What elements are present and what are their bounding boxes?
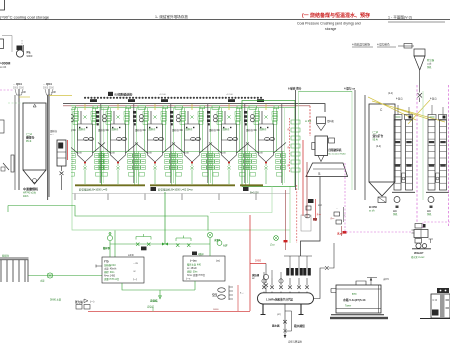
four-roll crusher (315, 136, 328, 156)
svg-text:减压阀: 减压阀 (252, 273, 260, 277)
stem gauge circle (279, 279, 283, 283)
unit 6 red service line (289, 118, 291, 172)
svg-text:DN50: DN50 (255, 260, 262, 263)
svg-text:(2-2): (2-2) (388, 93, 393, 95)
pump 1 (416, 243, 421, 248)
coal bunker unit 1 (63, 104, 105, 200)
screen discharge pipe (301, 177, 321, 257)
silo A body (23, 103, 46, 170)
svg-text:(一 烧结备煤与恒温混水、预存: (一 烧结备煤与恒温混水、预存 (302, 12, 370, 19)
tripper trolley (257, 99, 264, 102)
cyclone feed box (404, 44, 412, 49)
pump casing (414, 230, 428, 238)
belt conveyor 2 (150, 184, 235, 186)
cyclone drop pipe (418, 70, 423, 102)
coal bunker unit 6 (244, 104, 286, 200)
svg-text:95.4t: 95.4t (373, 138, 379, 141)
yellow transfer line 1 (368, 97, 416, 120)
junction arrows (162, 243, 168, 246)
to sinter tick (152, 308, 154, 311)
svg-text:←Q04: ←Q04 (43, 82, 52, 86)
valve bracket B (136, 234, 151, 240)
steam trap (283, 320, 287, 324)
svg-text:(FT): (FT) (277, 314, 281, 316)
svg-text:循环泵: 循环泵 (102, 246, 111, 250)
feed chute 1 (18, 89, 20, 190)
trench pump (47, 273, 52, 278)
drum valve stem 3 (279, 278, 283, 293)
svg-text:(—): (—) (133, 278, 137, 281)
tag list left (291, 120, 300, 124)
feeder hot line (67, 140, 69, 160)
svg-text:Coal Pressure Crushing (and dr: Coal Pressure Crushing (and drying) and (297, 22, 361, 26)
svg-text:B=650: B=650 (369, 205, 377, 209)
blowdown line (brown) (285, 190, 287, 250)
manifold bracket (229, 286, 233, 301)
coal bunker unit 3 (133, 104, 175, 200)
svg-text:BTX: BTX (352, 293, 357, 296)
tripper trolley (228, 99, 235, 102)
tank riser box (356, 281, 366, 285)
bunker bay top rail (72, 107, 295, 109)
svg-text:A1F: A1F (223, 245, 228, 248)
tag BQ (17, 46, 23, 51)
coal bunker unit 2 (96, 104, 138, 200)
svg-text:storage: storage (325, 27, 336, 31)
bunker bay enclosure (72, 108, 290, 231)
svg-text:(—): (—) (90, 300, 94, 304)
wire to pressure gauge (2, 36, 12, 53)
circulating pump A (107, 235, 112, 240)
silo C wall line (364, 95, 366, 200)
valve E green (217, 241, 222, 246)
heater box 1 (102, 257, 144, 283)
pump top box (415, 224, 422, 229)
silo A vent marker (33, 104, 36, 107)
svg-text:xxFD: xxFD (128, 254, 134, 257)
silo C body (369, 104, 395, 182)
svg-text:B=1000: B=1000 (250, 192, 259, 195)
svg-text:N=xx 1450: N=xx 1450 (104, 276, 116, 278)
drain arrow (284, 335, 287, 338)
svg-text:4-混匀 xx: 4-混匀 xx (344, 87, 356, 91)
svg-text:去烧结: 去烧结 (150, 299, 158, 303)
svg-text:混匀矿仓: 混匀矿仓 (373, 134, 384, 138)
steam line to sinter (red) (88, 310, 250, 312)
bay wall red dashed (296, 185, 298, 243)
svg-text:煤粉仓: 煤粉仓 (50, 129, 58, 133)
heater box 1 stub (96, 265, 102, 268)
stem header line (284, 255, 312, 257)
pump sub box (415, 239, 422, 244)
battery limit (magenta dashed) 2 (448, 85, 450, 226)
circulating pump D (207, 232, 212, 237)
drum valve stem 2 (270, 278, 274, 293)
svg-text:水8.5: 水8.5 (383, 277, 389, 281)
distribution header (110, 243, 210, 245)
upper-left partial box (0, 39, 4, 49)
svg-text:xx t/h: xx t/h (369, 210, 375, 213)
stem isolation valve pair (286, 268, 289, 276)
tripper trolley (161, 99, 168, 102)
pump 2 (422, 244, 426, 248)
silo C discharge feeder (378, 197, 386, 203)
svg-text:4-混匀料仓: 4-混匀料仓 (377, 43, 390, 47)
trap bypass (283, 311, 291, 333)
coal feeder box (57, 140, 66, 166)
riser from bay (164, 192, 166, 244)
yellow transfer line 4 (408, 100, 430, 124)
tripper trolley (90, 99, 97, 102)
valve cluster below crusher (308, 199, 314, 203)
feeder discharge (60, 166, 64, 190)
svg-text:4-烧结混匀料场: 4-烧结混匀料场 (352, 43, 370, 47)
svg-text:←xx: ←xx (133, 262, 139, 265)
svg-text:疏水器: 疏水器 (271, 324, 280, 328)
svg-text:磨煤仓: 磨煤仓 (25, 136, 35, 140)
magenta jumper top (423, 222, 450, 228)
left chute symbols (11, 155, 14, 172)
svg-text:≈900M: ≈900M (0, 62, 11, 66)
equipment tag box (301, 215, 311, 231)
drum valve stem 5 (297, 278, 301, 293)
mill motor M (33, 179, 37, 183)
svg-text:9000: 9000 (27, 54, 33, 58)
coal bunker unit 4 (170, 104, 212, 200)
svg-text:+-08: +-08 (21, 92, 26, 94)
crusher water lines (302, 140, 304, 216)
cyclone body (414, 49, 425, 56)
air compressor symbols (218, 288, 226, 292)
belt conveyor 3 (240, 184, 263, 186)
svg-text:No Crusher Roller: No Crusher Roller (329, 153, 347, 156)
incoming line (magenta dashed) (0, 89, 13, 91)
svg-text:Pa: Pa (27, 51, 31, 55)
svg-text:胶带输送机 B=1000 L=45: 胶带输送机 B=1000 L=45 (79, 188, 108, 192)
control cabinet (431, 294, 450, 318)
drum legs (261, 304, 266, 315)
steam distribution drum (258, 293, 314, 304)
pressure gauge circle (16, 50, 23, 57)
unit 6 enclosure (242, 101, 295, 187)
svg-text:胶带输送机 B=1000 L=62 Q=xx: 胶带输送机 B=1000 L=62 Q=xx (158, 188, 194, 192)
mixing tower pair 1 (392, 105, 415, 216)
crusher discharge funnel (318, 156, 324, 162)
gallery floor line (63, 104, 325, 112)
svg-text:6-破碎 筛分: 6-破碎 筛分 (288, 87, 302, 91)
svg-text:WGAP: WGAP (414, 251, 423, 255)
title block corner box (0, 0, 5, 10)
tower green line (422, 91, 424, 200)
drum valve stem 6 (305, 278, 309, 293)
cabinet base (420, 318, 450, 320)
steam supply riser (red) (249, 215, 251, 311)
yellow transfer line 3 (395, 108, 428, 119)
svg-text:FTD: FTD (104, 261, 109, 264)
silo C hopper (369, 182, 395, 196)
belt conveyor 1 (75, 184, 145, 186)
svg-text:x→: x→ (240, 292, 244, 295)
stem isolation valve pair (303, 268, 306, 276)
svg-text:1 - 平面图(V-3): 1 - 平面图(V-3) (388, 15, 412, 20)
crusher feeder box (317, 117, 326, 124)
svg-text:(—)xx: (—)xx (190, 260, 197, 263)
crusher to pump line (magenta dashed) (345, 163, 413, 232)
battery limit (magenta dashed) 1 (416, 85, 418, 222)
svg-text:95.4t: 95.4t (26, 140, 32, 143)
heater box 2 (183, 256, 225, 281)
tank base (331, 314, 384, 316)
svg-text:四辊破碎机: 四辊破碎机 (329, 148, 342, 152)
svg-text:+12.00: +12.00 (226, 94, 234, 96)
compressor air line (red) (237, 285, 239, 311)
tripper rail (loop chain) (85, 97, 262, 99)
svg-text:C O: C O (433, 298, 438, 302)
svg-text:+12.00: +12.00 (159, 94, 167, 96)
left wall line (14, 95, 16, 190)
pump base (412, 248, 431, 250)
svg-text:+-08: +-08 (51, 92, 56, 94)
crusher feed line (red dashed) (309, 106, 311, 136)
tank dimension arrow (367, 278, 377, 286)
svg-text:xx 60t: xx 60t (305, 120, 311, 123)
svg-text:Tower: Tower (345, 305, 351, 308)
left wall box (0, 120, 4, 133)
elevator column (47, 95, 49, 200)
trench outlet pipe (29, 275, 103, 277)
vibrating screen (306, 163, 348, 177)
drum valve stem 4 (288, 278, 292, 293)
drum outlet right (314, 268, 326, 299)
bay enclosure inner step (210, 186, 272, 213)
gallery floor thin line (72, 193, 290, 195)
svg-text:1- 烧结室外堆场存放: 1- 烧结室外堆场存放 (155, 14, 188, 19)
svg-text:疏水阀组: 疏水阀组 (293, 324, 305, 328)
svg-text:原煤仓: 原煤仓 (2, 254, 10, 258)
svg-text:中速磨煤机: 中速磨煤机 (23, 186, 38, 191)
rail tag (108, 92, 113, 96)
water tank (336, 285, 381, 313)
outlet to sinter (122, 281, 195, 299)
valve F green (274, 236, 279, 241)
svg-text:←Q04: ←Q04 (13, 82, 22, 86)
svg-text:(≈90°C cooling coal storage: (≈90°C cooling coal storage (0, 15, 50, 20)
svg-text:(二)d: (二)d (373, 131, 379, 134)
drum valve stem 1 (262, 278, 266, 293)
conveyor tag (151, 187, 157, 191)
svg-text:xx: 45m/h: xx: 45m/h (187, 268, 198, 270)
yellow transfer line 2 (372, 101, 445, 122)
top border line (0, 19, 450, 21)
stem gauge circle (262, 279, 266, 283)
svg-text:xx t/h: xx t/h (0, 65, 7, 69)
valve bracket C (176, 236, 191, 242)
svg-text:+12.00: +12.00 (126, 94, 134, 96)
drum drain line (284, 304, 286, 338)
cooling water pipe from trench (8, 206, 208, 231)
svg-text:DN80: DN80 (213, 309, 219, 311)
svg-text:1.5MPa饱和蒸汽分汽缸: 1.5MPa饱和蒸汽分汽缸 (266, 298, 294, 302)
feed chute 2 (48, 89, 50, 197)
tank left nozzle (331, 289, 336, 293)
hot gas line (yellow) (49, 95, 72, 97)
crusher feed funnel (317, 124, 326, 131)
tripper trolley (128, 99, 135, 102)
svg-text:xx t: xx t (50, 133, 54, 136)
coal bunker unit 5 (207, 104, 249, 200)
svg-text:(xx): (xx) (216, 260, 220, 263)
svg-text:水箱 5.4x(3T)5.43: 水箱 5.4x(3T)5.43 (342, 298, 366, 302)
cabinet top tag (437, 288, 449, 293)
steam header (red) (63, 105, 310, 107)
mixing tower pair 2 (426, 105, 449, 216)
crusher bay walls (295, 90, 297, 190)
stem isolation valve pair (295, 268, 298, 276)
svg-text:...: ... (336, 207, 338, 210)
svg-text:空压: 空压 (212, 293, 218, 297)
svg-text:水xx: 水xx (337, 232, 343, 236)
silo A hopper (23, 170, 46, 184)
olive stub (19, 96, 30, 98)
svg-text:40t/h: 40t/h (23, 195, 29, 198)
svg-text:(2-2): (2-2) (376, 145, 381, 148)
coal trench (0, 258, 29, 282)
svg-text:张力站: 张力站 (75, 300, 83, 304)
crusher water takeoff (red) (315, 199, 317, 221)
